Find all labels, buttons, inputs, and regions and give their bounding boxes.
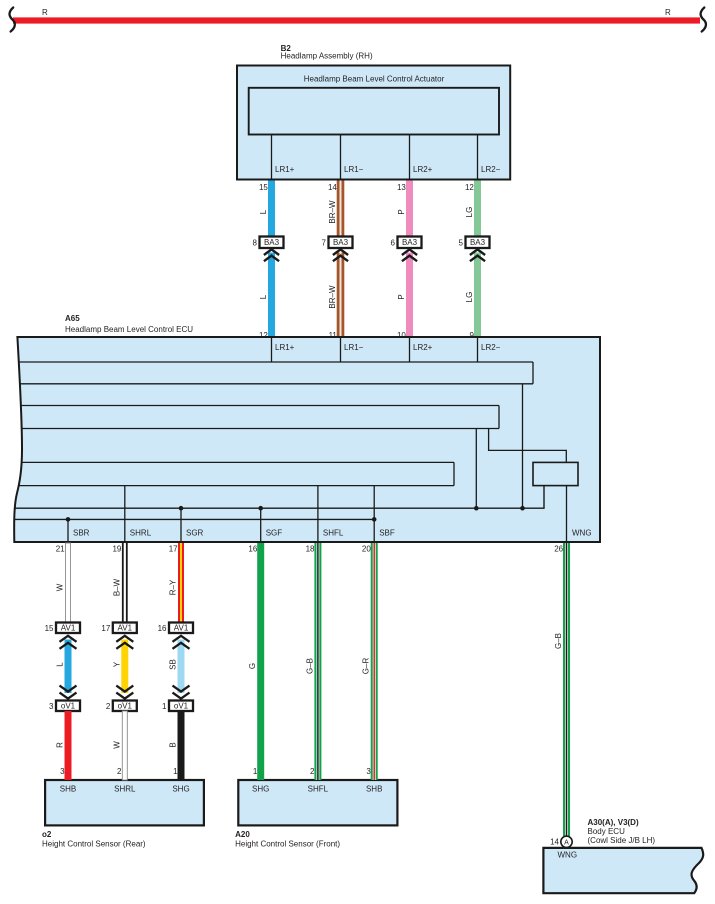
svg-text:26: 26 <box>554 544 563 553</box>
svg-text:5: 5 <box>459 238 464 247</box>
svg-text:SGF: SGF <box>266 529 283 538</box>
svg-text:SHFL: SHFL <box>323 529 344 538</box>
svg-text:A65: A65 <box>65 314 80 323</box>
svg-text:Headlamp Beam Level Control EC: Headlamp Beam Level Control ECU <box>65 325 193 334</box>
svg-text:R: R <box>56 742 65 748</box>
svg-text:(Cowl Side J/B LH): (Cowl Side J/B LH) <box>588 836 656 845</box>
svg-text:B–W: B–W <box>112 578 121 596</box>
svg-text:LR2−: LR2− <box>481 165 501 174</box>
svg-text:3: 3 <box>366 767 371 776</box>
svg-text:W: W <box>112 741 121 749</box>
svg-text:20: 20 <box>362 544 371 553</box>
svg-text:P: P <box>397 294 406 299</box>
svg-text:LR2−: LR2− <box>481 343 501 352</box>
svg-text:16: 16 <box>158 624 167 633</box>
svg-text:WNG: WNG <box>572 529 592 538</box>
svg-text:o2: o2 <box>42 830 52 839</box>
svg-text:G–R: G–R <box>362 658 371 675</box>
svg-text:15: 15 <box>45 624 54 633</box>
svg-text:A20: A20 <box>235 830 250 839</box>
svg-text:SBR: SBR <box>73 529 90 538</box>
svg-text:G–B: G–B <box>305 658 314 674</box>
svg-text:SHFL: SHFL <box>308 785 329 794</box>
svg-text:LG: LG <box>465 292 474 303</box>
svg-text:BR–W: BR–W <box>328 200 337 224</box>
svg-text:G: G <box>248 663 257 669</box>
svg-text:14: 14 <box>550 838 559 847</box>
svg-text:B: B <box>169 742 178 747</box>
svg-text:SHB: SHB <box>60 785 76 794</box>
svg-text:8: 8 <box>253 238 258 247</box>
svg-text:2: 2 <box>117 767 122 776</box>
svg-text:oV1: oV1 <box>118 702 133 711</box>
svg-text:LR1+: LR1+ <box>275 343 295 352</box>
svg-text:3: 3 <box>60 767 65 776</box>
svg-text:W: W <box>56 583 65 591</box>
svg-text:WNG: WNG <box>558 850 578 859</box>
svg-text:LR1+: LR1+ <box>275 165 295 174</box>
svg-text:L: L <box>259 294 268 299</box>
svg-text:21: 21 <box>56 544 65 553</box>
svg-text:Y: Y <box>112 661 121 667</box>
svg-text:L: L <box>259 209 268 214</box>
svg-text:AV1: AV1 <box>118 624 133 633</box>
svg-text:A: A <box>564 840 569 847</box>
svg-text:P: P <box>397 209 406 214</box>
svg-text:2: 2 <box>310 767 315 776</box>
svg-text:SBF: SBF <box>379 529 395 538</box>
svg-text:6: 6 <box>391 238 396 247</box>
svg-text:LR2+: LR2+ <box>413 343 433 352</box>
svg-text:SGR: SGR <box>186 529 204 538</box>
svg-text:7: 7 <box>322 238 327 247</box>
svg-text:17: 17 <box>169 544 178 553</box>
svg-text:18: 18 <box>306 544 315 553</box>
svg-text:R: R <box>42 8 48 17</box>
svg-text:1: 1 <box>162 702 167 711</box>
svg-text:G–B: G–B <box>554 633 563 649</box>
svg-text:oV1: oV1 <box>174 702 189 711</box>
svg-text:BA3: BA3 <box>333 238 349 247</box>
svg-text:SHRL: SHRL <box>130 529 152 538</box>
svg-text:oV1: oV1 <box>61 702 76 711</box>
svg-text:BA3: BA3 <box>470 238 486 247</box>
svg-text:BA3: BA3 <box>402 238 418 247</box>
svg-text:SB: SB <box>169 659 178 670</box>
svg-text:2: 2 <box>106 702 111 711</box>
svg-text:14: 14 <box>328 183 337 192</box>
svg-text:1: 1 <box>173 767 178 776</box>
svg-text:Body ECU: Body ECU <box>588 827 626 836</box>
svg-text:Height Control Sensor (Front): Height Control Sensor (Front) <box>235 839 340 848</box>
svg-text:R: R <box>665 8 671 17</box>
svg-text:SHB: SHB <box>366 785 382 794</box>
svg-text:AV1: AV1 <box>61 624 76 633</box>
svg-text:15: 15 <box>259 183 268 192</box>
svg-text:BA3: BA3 <box>264 238 280 247</box>
svg-text:LR1−: LR1− <box>344 343 364 352</box>
svg-text:LR1−: LR1− <box>344 165 364 174</box>
svg-text:SHG: SHG <box>172 785 189 794</box>
svg-text:Height Control Sensor (Rear): Height Control Sensor (Rear) <box>42 839 146 848</box>
svg-text:R–Y: R–Y <box>169 579 178 595</box>
svg-text:L: L <box>56 662 65 667</box>
svg-text:1: 1 <box>253 767 258 776</box>
svg-text:19: 19 <box>112 544 121 553</box>
svg-text:A30(A), V3(D): A30(A), V3(D) <box>588 818 639 827</box>
svg-text:17: 17 <box>101 624 110 633</box>
svg-text:3: 3 <box>49 702 54 711</box>
svg-text:Headlamp Beam Level Control Ac: Headlamp Beam Level Control Actuator <box>304 75 445 84</box>
svg-text:BR–W: BR–W <box>328 285 337 309</box>
svg-text:Headlamp Assembly (RH): Headlamp Assembly (RH) <box>281 52 373 61</box>
svg-text:16: 16 <box>248 544 257 553</box>
svg-text:SHRL: SHRL <box>114 785 136 794</box>
svg-text:SHG: SHG <box>252 785 269 794</box>
svg-text:12: 12 <box>465 183 474 192</box>
svg-text:AV1: AV1 <box>174 624 189 633</box>
svg-text:13: 13 <box>397 183 406 192</box>
svg-text:LR2+: LR2+ <box>413 165 433 174</box>
svg-text:LG: LG <box>465 207 474 218</box>
